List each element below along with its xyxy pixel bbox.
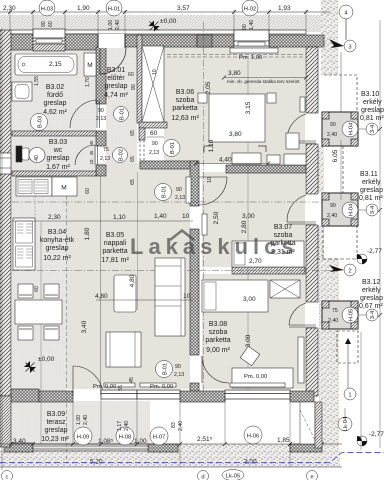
axis dashdot horizontal y270 (12, 270, 335, 272)
door bath leaf and arc (97, 100, 100, 128)
svg-text:előtér: előtér (107, 75, 125, 82)
svg-text:3-4: 3-4 (370, 310, 376, 319)
detail circle 2 right (344, 264, 356, 276)
top dimension line (0, 11, 330, 13)
svg-text:greslap: greslap (47, 155, 70, 162)
svg-text:Pm. 0,00: Pm. 0,00 (93, 384, 116, 390)
svg-text:90: 90 (242, 24, 248, 30)
svg-text:0,81 m²: 0,81 m² (360, 115, 384, 122)
svg-text:2,70: 2,70 (249, 258, 262, 265)
svg-text:45: 45 (89, 150, 94, 155)
room B3.02 furdo floor (12, 50, 96, 132)
rotated size under window H-06 (171, 421, 184, 431)
circle H-07 (150, 427, 168, 445)
svg-text:e: e (310, 475, 313, 480)
dining chair 2 (44, 284, 59, 298)
chair B3.06 right (286, 133, 299, 149)
svg-text:90: 90 (41, 21, 47, 27)
svg-text:75: 75 (103, 147, 109, 153)
kitchen top counter stove (16, 177, 52, 196)
svg-text:9,00 m²: 9,00 m² (206, 347, 230, 354)
label balcony B3.12 (359, 279, 383, 310)
bed B3.07 (232, 241, 304, 267)
bathtub (15, 54, 77, 75)
svg-text:H-05: H-05 (349, 309, 355, 322)
svg-text:4,80: 4,80 (129, 274, 136, 287)
nightstand right B3.06 (267, 93, 276, 103)
svg-text:M: M (87, 62, 92, 69)
wall top segment left of bath window (10, 34, 33, 50)
chest at bed foot B3.06 (232, 153, 261, 164)
axis dashdot vertical x203 (203, 22, 205, 396)
svg-text:B-01: B-01 (162, 186, 168, 198)
label room B3.04 (40, 229, 75, 262)
svg-text:2,80: 2,80 (241, 220, 248, 233)
svg-text:3,15: 3,15 (245, 101, 252, 114)
room B3.03 wc floor (12, 136, 96, 171)
balcony door B3.11 box (322, 193, 358, 226)
svg-text:60: 60 (128, 72, 134, 78)
corner bracket left B3.06 (204, 146, 213, 152)
svg-text:H-04: H-04 (349, 122, 355, 135)
room B3.05 nappali floor (66, 176, 190, 389)
svg-text:Pm. 1,00: Pm. 1,00 (239, 55, 262, 61)
bath sink (12, 82, 32, 101)
level mark top (149, 18, 177, 32)
svg-text:szoba: szoba (209, 329, 228, 336)
balcony B3.12 floor (322, 301, 358, 329)
wall right exterior vertical (306, 47, 318, 113)
balcony door B3.10 box (322, 112, 358, 146)
svg-text:1,85: 1,85 (277, 437, 290, 444)
section circle 4 top right (339, 5, 353, 19)
radiator nappali under window mid (140, 383, 176, 387)
kitchen dining boundary dashed (66, 176, 68, 460)
ground strip right side top (321, 0, 338, 75)
svg-text:H-09: H-09 (77, 435, 90, 441)
svg-text:10: 10 (152, 69, 158, 75)
svg-text:terasz: terasz (46, 419, 66, 426)
section circle 3 right (344, 40, 356, 52)
svg-text:5,20: 5,20 (90, 459, 103, 466)
window B3.08 H-06 (225, 390, 290, 399)
wall left exterior (0, 30, 11, 396)
svg-text:3,40: 3,40 (13, 438, 26, 445)
svg-text:B-03: B-03 (38, 116, 44, 128)
svg-text:2,50: 2,50 (213, 211, 220, 224)
axis circle Lk-04 right (338, 417, 352, 431)
svg-text:2,40: 2,40 (327, 213, 337, 219)
svg-text:2: 2 (348, 269, 351, 275)
svg-text:szoba: szoba (176, 97, 195, 104)
svg-text:10: 10 (89, 159, 94, 164)
svg-text:83: 83 (171, 422, 177, 428)
svg-text:1,00: 1,00 (134, 438, 147, 445)
wc shaft block (16, 146, 22, 162)
svg-text:1,70: 1,70 (85, 77, 91, 87)
door B3.07 leaf and arc (199, 176, 227, 178)
leader x225 (224, 399, 226, 444)
leader vertical x137 (137, 172, 139, 310)
door B3.08 leaf and arc (201, 356, 203, 383)
balcony door B3.12 leaf and arc (289, 325, 316, 327)
svg-text:2,13: 2,13 (149, 150, 159, 156)
circle H-09 (74, 427, 92, 445)
door circle B-02 wc (100, 147, 128, 163)
wall bottom band right (290, 391, 314, 402)
svg-text:65: 65 (130, 156, 136, 162)
svg-text:60: 60 (48, 21, 54, 27)
wall below wardrobe (139, 122, 167, 128)
wall bottom band middle (180, 391, 225, 402)
kitchen left counter (13, 218, 35, 270)
svg-text:greslap: greslap (44, 100, 67, 107)
door terrace H-09 leaf and arc (72, 366, 74, 396)
label room B3.08 (205, 321, 230, 354)
leader x101 (100, 399, 102, 444)
dining table (15, 300, 62, 324)
nightstand left B3.06 (198, 93, 207, 103)
svg-text:greslap: greslap (361, 107, 384, 114)
svg-text:40: 40 (34, 155, 40, 161)
svg-text:12,63 m²: 12,63 m² (171, 115, 199, 122)
svg-text:45: 45 (129, 377, 135, 383)
svg-text:1,00: 1,00 (76, 415, 82, 425)
svg-text:3,80: 3,80 (229, 131, 242, 138)
wall bath-wc partition (12, 131, 96, 136)
leader x180 (179, 399, 181, 467)
bottom dimension line (0, 443, 342, 445)
openings (33, 29, 358, 399)
desk B3.08 (232, 368, 293, 388)
room B3.06 szoba floor (164, 47, 305, 164)
label room B3.01 (104, 67, 128, 99)
svg-text:2,40: 2,40 (178, 421, 184, 431)
bed B3.06 (209, 94, 265, 142)
label room B3.06 (171, 89, 199, 122)
svg-text:±0,00: ±0,00 (38, 356, 55, 363)
window H-03 (33, 29, 65, 41)
svg-text:B3.08: B3.08 (209, 321, 227, 328)
svg-text:1,55: 1,55 (34, 76, 40, 86)
svg-text:greslap: greslap (46, 245, 69, 252)
svg-text:65: 65 (130, 179, 136, 185)
svg-text:B-01: B-01 (163, 363, 169, 375)
svg-text:B-01: B-01 (120, 108, 126, 120)
circle H-05 door3 (342, 307, 358, 323)
wardrobe with X (142, 46, 164, 122)
section circle 34 right3 (366, 309, 378, 321)
sofa nappali (155, 258, 185, 336)
blue datum dashed line (0, 453, 384, 463)
svg-text:B3.02: B3.02 (46, 84, 64, 91)
balcony B3.10 floor (322, 112, 358, 146)
armchair nappali 1 (114, 275, 136, 312)
svg-text:3,00: 3,00 (243, 296, 256, 303)
wall wc-kitchen partition (12, 171, 96, 176)
svg-text:B-02: B-02 (119, 149, 125, 161)
room B3.09 terasz floor (4, 401, 150, 444)
svg-text:1,40: 1,40 (154, 213, 167, 220)
dresser B3.06 bottom right (284, 154, 306, 165)
axis ellipse Lk-05 (222, 470, 244, 480)
door circle B-01 bath (96, 107, 129, 123)
svg-text:1,93: 1,93 (278, 5, 291, 12)
right lower margin line (360, 332, 362, 450)
svg-text:3,80: 3,80 (228, 70, 241, 77)
svg-text:B3.12: B3.12 (362, 279, 380, 286)
svg-text:1,17: 1,17 (117, 421, 123, 431)
svg-text:H-08: H-08 (119, 435, 132, 441)
section circle 34 right1 (366, 123, 378, 135)
walls (0, 30, 324, 452)
door2 size 90 240 (327, 203, 337, 219)
svg-text:parketta: parketta (205, 337, 230, 344)
watermark (130, 231, 299, 260)
svg-text:B3.03: B3.03 (49, 139, 67, 146)
svg-text:3,00: 3,00 (242, 213, 255, 220)
wc toilet (22, 148, 29, 160)
svg-text:90: 90 (131, 84, 137, 90)
wall top segment right (269, 35, 324, 47)
axis dashdot horizontal y202 (12, 201, 335, 203)
svg-text:B3.10: B3.10 (361, 91, 379, 98)
terrace edge wall left (4, 443, 33, 452)
label room B3.02 (43, 84, 67, 116)
leader x290 (289, 399, 291, 467)
circle H-04 door1 (342, 121, 358, 137)
label room B3.09 (41, 411, 69, 443)
svg-text:90: 90 (330, 122, 336, 128)
label balcony B3.10 (360, 91, 384, 122)
svg-text:6,05: 6,05 (332, 149, 339, 162)
dining chair 4 (44, 326, 59, 340)
bottom second dim line (0, 466, 342, 468)
svg-text:c: c (6, 475, 9, 480)
kitchen nappali floor boundary (100, 176, 102, 395)
svg-text:Pm. 0,00: Pm. 0,00 (244, 374, 267, 380)
svg-text:10: 10 (183, 293, 191, 300)
dims nappali row y300 (96, 299, 193, 301)
radiator B3.08 under window (230, 383, 285, 387)
wall B3.07-B3.08 partition (232, 267, 305, 274)
rotated size under window H-08 (76, 415, 89, 425)
washing machine M bath (84, 53, 96, 76)
svg-text:1,67 m²: 1,67 m² (46, 164, 70, 171)
balcony B3.10 outline dashed (324, 75, 357, 112)
svg-text:0,67 m²: 0,67 m² (359, 303, 383, 310)
svg-text:10,22 m²: 10,22 m² (43, 255, 71, 262)
svg-text:erkély: erkély (362, 179, 381, 186)
svg-text:H-04: H-04 (349, 203, 355, 216)
wall parapet under bath window (33, 44, 65, 51)
svg-text:greslap: greslap (360, 295, 383, 302)
svg-text:60: 60 (85, 188, 91, 194)
door wc leaf and arc (95, 145, 98, 165)
svg-text:erkély: erkély (362, 287, 381, 294)
section circle 34 right2 (366, 204, 378, 216)
label room B3.05 (101, 232, 129, 264)
svg-text:75: 75 (332, 308, 338, 314)
wardrobe B3.08 with X (270, 280, 300, 298)
svg-text:H-01: H-01 (108, 7, 121, 13)
door1 size 90 240 (327, 122, 337, 138)
svg-text:2,30: 2,30 (3, 5, 16, 12)
svg-text:fürdő: fürdő (47, 92, 63, 99)
svg-text:4,40: 4,40 (219, 157, 232, 164)
svg-text:parketta: parketta (102, 248, 127, 255)
terrace edge wall right (290, 444, 322, 452)
balcony B3.11 floor (322, 193, 358, 226)
svg-text:B3.01: B3.01 (107, 67, 125, 74)
leader vertical x41 dining (40, 222, 42, 444)
radiator B3.06 under window (230, 48, 278, 53)
wall bath-wc right (96, 47, 106, 104)
svg-text:3: 3 (348, 45, 351, 51)
circle H-04 door2 (342, 202, 358, 218)
watermark roof icon (170, 231, 194, 241)
svg-text:greslap: greslap (105, 83, 128, 90)
svg-text:2,51⁵: 2,51⁵ (197, 436, 213, 443)
svg-text:B3.04: B3.04 (48, 229, 66, 236)
radiator nappali under window left (104, 383, 135, 387)
beam dashed outline B3.06 (167, 54, 306, 56)
svg-text:2,40: 2,40 (328, 318, 338, 324)
svg-text:3-4: 3-4 (370, 205, 376, 214)
svg-text:greslap: greslap (360, 187, 383, 194)
svg-text:konyha-étk: konyha-étk (40, 237, 75, 244)
window H-02 (234, 30, 269, 46)
svg-text:B3.06: B3.06 (176, 89, 194, 96)
svg-text:2,40: 2,40 (327, 132, 337, 138)
svg-text:90: 90 (152, 141, 158, 147)
leader x137 (136, 399, 138, 444)
svg-text:2,40: 2,40 (124, 421, 130, 431)
rotated window size under H-02 (242, 20, 255, 30)
svg-text:M: M (61, 185, 66, 192)
svg-text:Lakaskulcs: Lakaskulcs (130, 234, 299, 259)
door circle B-01 b308 (156, 361, 185, 379)
balcony B3.11 gap edge dashed (342, 146, 344, 193)
svg-text:1,80: 1,80 (84, 227, 91, 240)
svg-text:90: 90 (176, 187, 182, 193)
detail circle 1 right (344, 388, 356, 400)
svg-text:60: 60 (34, 286, 40, 292)
svg-text:4,74 m²: 4,74 m² (104, 92, 128, 99)
axis circle e (307, 471, 318, 480)
kitchen M appliance (52, 177, 77, 196)
balcony B3.11 outline dashed (323, 226, 357, 258)
bed B3.08 (202, 280, 268, 312)
dining chair 1 (18, 284, 33, 298)
svg-text:1,00: 1,00 (108, 20, 114, 30)
door circle B-03 bath left (31, 114, 48, 131)
svg-text:45: 45 (89, 140, 94, 145)
svg-text:2,13: 2,13 (175, 195, 185, 201)
svg-text:3,00: 3,00 (245, 334, 252, 347)
top circle H-02 (242, 0, 258, 16)
svg-text:1,90: 1,90 (77, 5, 90, 12)
svg-text:2,40: 2,40 (83, 415, 89, 425)
rotated window size under H-03 (41, 21, 54, 27)
svg-text:0,81 m²: 0,81 m² (359, 195, 383, 202)
svg-text:nappali: nappali (104, 240, 127, 247)
ground strip below terrace (0, 450, 340, 467)
wall top segment entry to window2 (125, 35, 234, 47)
door circle B-01 b307 (155, 184, 186, 202)
svg-text:wc: wc (53, 147, 63, 154)
svg-text:3,57: 3,57 (177, 5, 190, 12)
interior dim line y221 (12, 220, 193, 222)
svg-text:10,23 m²: 10,23 m² (41, 436, 69, 443)
entry door leaf and arc (99, 48, 101, 74)
label room B3.07 (270, 224, 295, 256)
svg-text:Pm. 0,00: Pm. 0,00 (150, 384, 173, 390)
svg-text:1,10: 1,10 (113, 214, 126, 221)
wall eloter-b306 bottom (140, 161, 198, 169)
svg-text:4,80: 4,80 (95, 293, 108, 300)
svg-text:90: 90 (175, 364, 181, 370)
right margin vertical dim line (379, 20, 381, 448)
svg-text:1,40: 1,40 (249, 20, 255, 30)
balcony door B3.11 leaf and arc (287, 222, 316, 224)
radiator nappali top right wall (186, 177, 191, 203)
svg-text:2,13: 2,13 (96, 116, 106, 122)
corner bracket right B3.06 (258, 146, 266, 152)
svg-text:2,30: 2,30 (48, 214, 61, 221)
circle H-06 (244, 426, 262, 444)
top circle H-03 (39, 0, 55, 16)
svg-text:B3.07: B3.07 (274, 224, 292, 231)
axis circle d (198, 471, 209, 480)
svg-text:17,81 m²: 17,81 m² (101, 257, 129, 264)
terrace edge wall mid (148, 444, 178, 452)
svg-text:3,40: 3,40 (81, 320, 88, 333)
room B3.07 szoba floor (202, 172, 305, 267)
beam dim line (224, 77, 306, 79)
dim 6,05 rotated right (340, 140, 342, 200)
svg-text:H-06: H-06 (247, 434, 260, 440)
svg-text:B3.11: B3.11 (360, 171, 378, 178)
leader x73 (72, 402, 74, 444)
left margin dim line (1, 28, 3, 470)
svg-text:B3.09: B3.09 (47, 411, 65, 418)
svg-text:1,10: 1,10 (208, 139, 215, 152)
balcony B3.12 outline dashed (337, 331, 358, 363)
leader vertical x248 (247, 60, 249, 390)
axis circle c (2, 471, 13, 480)
wall eloter left of wardrobe (137, 35, 142, 123)
svg-text:3-4: 3-4 (370, 124, 376, 133)
radiator B3.07 (202, 214, 207, 235)
svg-text:90: 90 (98, 108, 104, 114)
svg-text:greslap: greslap (45, 427, 68, 434)
svg-text:d: d (201, 475, 204, 480)
left wall shaft opening (0, 153, 11, 174)
svg-text:90: 90 (330, 203, 336, 209)
svg-text:2,13: 2,13 (100, 156, 110, 162)
circle H-08 (116, 427, 134, 445)
svg-text:B3.05: B3.05 (106, 232, 124, 239)
balcony door B3.12 box (322, 301, 358, 329)
svg-text:min. vb. gerenda statika terv: min. vb. gerenda statika terv szerint (227, 79, 300, 84)
radiator B3.06 right wall (300, 97, 305, 112)
armchair nappali 2 (106, 332, 141, 367)
room B3.01 eloter floor (106, 47, 137, 163)
room B3.08 szoba floor (202, 274, 305, 389)
room B3.04 konyha floor (12, 176, 66, 395)
wall top segment bath to entry (65, 34, 98, 50)
